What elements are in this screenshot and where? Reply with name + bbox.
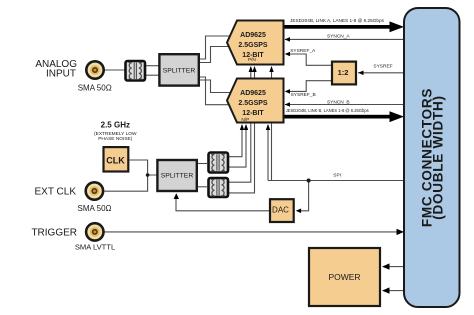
svg-text:SMA 50Ω: SMA 50Ω	[78, 83, 112, 92]
svg-text:SPI: SPI	[333, 173, 341, 179]
svg-text:EXT CLK: EXT CLK	[35, 186, 77, 197]
svg-text:SPLITTER: SPLITTER	[163, 67, 196, 74]
svg-text:AD9625: AD9625	[240, 90, 266, 97]
svg-text:AD9625: AD9625	[240, 32, 266, 39]
svg-text:P/N: P/N	[248, 57, 256, 62]
svg-text:2.5GSPS: 2.5GSPS	[238, 42, 268, 49]
svg-text:SMA LVTTL: SMA LVTTL	[75, 243, 115, 252]
svg-text:CLK: CLK	[106, 155, 125, 165]
svg-text:SYNCN_A: SYNCN_A	[327, 33, 350, 39]
svg-text:POWER: POWER	[328, 272, 360, 282]
svg-text:SYNCN_B: SYNCN_B	[327, 99, 350, 105]
svg-text:SYSREF_B: SYSREF_B	[291, 92, 316, 98]
svg-text:SYSREF_A: SYSREF_A	[290, 48, 316, 54]
svg-text:12-BIT: 12-BIT	[242, 110, 264, 117]
svg-text:TRIGGER: TRIGGER	[31, 228, 77, 239]
svg-text:N/P: N/P	[241, 117, 249, 122]
svg-text:(EXTREMELY LOW: (EXTREMELY LOW	[94, 131, 137, 137]
svg-text:1:2: 1:2	[338, 68, 349, 77]
svg-text:SPLITTER: SPLITTER	[161, 172, 194, 179]
svg-text:DAC: DAC	[272, 205, 289, 214]
svg-text:JESD204B, LINK A, LANES 1-8 @: JESD204B, LINK A, LANES 1-8 @ 6.25Gbps	[290, 18, 385, 24]
svg-text:2.5 GHz: 2.5 GHz	[101, 120, 130, 129]
svg-text:(DOUBLE WIDTH): (DOUBLE WIDTH)	[431, 95, 446, 219]
svg-text:INPUT: INPUT	[46, 69, 76, 80]
svg-text:PHASE NOISE): PHASE NOISE)	[98, 136, 133, 142]
svg-text:JESD204B, LINK B, LANES 1-8 @: JESD204B, LINK B, LANES 1-8 @ 6.25Gbps	[286, 108, 370, 114]
svg-text:2.5GSPS: 2.5GSPS	[238, 100, 268, 107]
svg-text:SMA 50Ω: SMA 50Ω	[78, 204, 112, 213]
svg-text:SYSREF: SYSREF	[373, 64, 392, 70]
